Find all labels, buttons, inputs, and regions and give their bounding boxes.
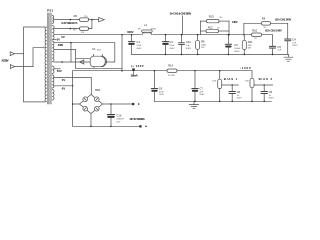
svg-text:R13: R13	[209, 15, 214, 19]
connector B+ 140V	[131, 64, 144, 77]
capacitor C7	[191, 71, 205, 102]
svg-text:R14: R14	[168, 64, 173, 68]
svg-text:PS1: PS1	[47, 9, 53, 13]
resistor R16 bias divider 2	[245, 71, 254, 102]
wire secondary stub 0V	[54, 39, 56, 41]
node dot	[145, 126, 147, 128]
svg-text:B2+ CH1 140V: B2+ CH1 140V	[275, 17, 291, 21]
svg-text:16V: 16V	[116, 121, 120, 123]
resistor R11	[242, 35, 253, 55]
svg-text:R7: R7	[73, 27, 77, 31]
resistor R6	[74, 14, 92, 21]
node dot	[131, 34, 133, 36]
svg-text:BIAS 2: BIAS 2	[259, 77, 273, 81]
AC input terminal J2	[10, 65, 33, 69]
node dot	[197, 34, 199, 36]
svg-text:DC 6V 300MA: DC 6V 300MA	[130, 117, 145, 121]
capacitor C1	[128, 35, 142, 55]
svg-text:C3: C3	[234, 43, 238, 47]
svg-text:BIAS 1: BIAS 1	[224, 77, 238, 81]
svg-text:250V: 250V	[199, 94, 205, 96]
inductor L1	[138, 23, 157, 35]
svg-text:C10: C10	[116, 113, 121, 117]
node dot	[72, 85, 74, 87]
svg-text:1uF: 1uF	[277, 50, 281, 52]
resistor R8	[196, 35, 207, 55]
svg-text:250V: 250V	[237, 97, 243, 99]
svg-text:R12: R12	[208, 25, 213, 29]
ground	[284, 54, 293, 61]
resistor R7	[73, 20, 92, 35]
node dot	[228, 54, 230, 56]
wire	[14, 53, 23, 55]
wire	[244, 23, 262, 34]
node dot	[110, 103, 112, 105]
connector arrow heater out	[92, 18, 104, 22]
svg-text:140V: 140V	[232, 20, 238, 24]
svg-text:50V: 50V	[57, 69, 62, 73]
wire B+ vertical to H3	[121, 35, 123, 71]
node dot	[231, 84, 233, 86]
node dot	[244, 54, 246, 56]
node dot	[91, 19, 93, 21]
wire bridge + output	[103, 103, 133, 105]
svg-text:R8: R8	[201, 39, 205, 43]
resistor R15 bias divider	[212, 71, 221, 102]
svg-text:C2: C2	[169, 40, 173, 44]
wire heater tap 2	[54, 28, 80, 30]
svg-text:R11: R11	[248, 40, 253, 44]
svg-text:R10: R10	[252, 29, 257, 33]
svg-text:R6: R6	[74, 14, 78, 18]
svg-text:400V: 400V	[234, 51, 240, 53]
secondary windings	[52, 16, 54, 101]
capacitor C3	[225, 35, 241, 55]
wire U1 anode feed	[70, 43, 72, 62]
node dot	[251, 101, 253, 103]
svg-text:C1: C1	[136, 40, 140, 44]
wire U1 cathode from transformer	[54, 61, 91, 63]
wire bias1 tap	[222, 84, 239, 86]
node dot	[181, 34, 183, 36]
rectifier tube U1	[90, 47, 106, 68]
bridge rectifier BR1	[80, 88, 103, 114]
terminal square +	[132, 103, 134, 105]
node dot	[263, 84, 265, 86]
primary winding	[45, 27, 47, 102]
node dot	[228, 34, 230, 36]
svg-text:C5: C5	[277, 45, 281, 49]
node dot	[197, 54, 199, 56]
svg-text:B2+ CH2 140V: B2+ CH2 140V	[265, 29, 282, 33]
capacitor C8	[229, 85, 243, 101]
wire bias2 tap	[254, 84, 273, 86]
wire minus bus	[73, 125, 140, 127]
wire 140V line (H3)	[73, 70, 252, 72]
svg-text:AC 230V: AC 230V	[1, 58, 8, 62]
wire heater tap 1	[54, 19, 80, 21]
svg-text:10K: 10K	[212, 81, 216, 83]
wire ground bus (H4)	[132, 53, 289, 55]
node dot	[231, 101, 233, 103]
node dot	[70, 28, 72, 30]
resistor R9	[262, 17, 288, 29]
node dot	[70, 42, 72, 44]
svg-text:-100V: -100V	[240, 66, 251, 70]
node dot	[194, 70, 196, 72]
wire	[182, 16, 184, 35]
node dot	[154, 70, 156, 72]
pin	[93, 54, 102, 68]
node dot	[110, 126, 112, 128]
node dot	[70, 19, 72, 21]
svg-text:BR1: BR1	[95, 88, 101, 92]
svg-text:250V: 250V	[269, 97, 275, 99]
wire	[15, 66, 33, 68]
resistor R14	[167, 64, 177, 77]
svg-text:L1: L1	[144, 23, 147, 27]
svg-text:10K: 10K	[245, 80, 249, 82]
AC input terminal J1	[10, 52, 23, 56]
wire rail B+ (H1)	[54, 34, 273, 36]
wire heater winding tap A	[54, 78, 92, 95]
wire bridge - output	[90, 114, 92, 127]
connector arrow on U1 wire	[80, 60, 84, 64]
svg-text:C8: C8	[237, 90, 241, 94]
capacitor C2	[162, 35, 175, 55]
svg-text:C11: C11	[186, 40, 191, 44]
capacitor C9	[261, 85, 275, 101]
capacitor C10	[107, 104, 125, 126]
node dot	[72, 103, 74, 105]
svg-text:100mA: 100mA	[131, 74, 138, 78]
wire primary bottom	[24, 54, 45, 102]
svg-text:3H: 3H	[138, 28, 141, 30]
wire primary left riser	[24, 27, 45, 54]
node dot	[263, 101, 265, 103]
svg-text:2200uF: 2200uF	[116, 119, 124, 121]
core	[47, 13, 49, 104]
svg-text:0V: 0V	[61, 35, 65, 39]
ground	[189, 101, 198, 108]
node dot	[219, 101, 221, 103]
node dot	[61, 61, 63, 63]
svg-text:B+ CH1 & CH2 380V: B+ CH1 & CH2 380V	[170, 12, 192, 16]
node dot	[165, 54, 167, 56]
node dot	[181, 54, 183, 56]
capacitor C5	[269, 35, 282, 55]
node dot	[90, 126, 92, 128]
wire primary mid tap	[33, 48, 45, 67]
wire bias ground bus (H5)	[155, 100, 272, 102]
svg-text:450V: 450V	[136, 48, 142, 50]
svg-text:0V: 0V	[57, 38, 61, 42]
svg-text:6V: 6V	[62, 86, 66, 90]
wire secondary stub 50V	[54, 68, 60, 70]
svg-text:250V: 250V	[292, 45, 298, 47]
svg-text:R9: R9	[262, 17, 266, 21]
node dot	[121, 34, 123, 36]
node dot	[243, 34, 245, 36]
svg-text:0V: 0V	[62, 78, 66, 82]
node dot	[228, 34, 230, 36]
wire U1 strap	[76, 67, 123, 69]
svg-text:630V: 630V	[186, 48, 192, 50]
resistor R10	[252, 29, 262, 41]
svg-text:C6: C6	[159, 87, 163, 91]
node dot	[219, 70, 221, 72]
svg-text:1K 3W: 1K 3W	[168, 75, 175, 77]
capacitor C4	[284, 23, 298, 54]
svg-text:U1: U1	[92, 47, 96, 51]
svg-text:6.3V WB417A: 6.3V WB417A	[62, 21, 78, 25]
wire rail 340V (H2)	[54, 43, 115, 62]
node dot	[138, 103, 140, 105]
svg-text:C9: C9	[269, 90, 273, 94]
wire heater winding tap B	[54, 85, 73, 87]
wire	[200, 21, 229, 35]
node dot	[121, 70, 123, 72]
svg-text:630V: 630V	[127, 30, 133, 34]
svg-text:340V: 340V	[58, 43, 64, 47]
svg-text:250V: 250V	[159, 94, 165, 96]
terminal square -	[139, 125, 141, 127]
svg-text:C7: C7	[199, 87, 203, 91]
node dot	[272, 54, 274, 56]
wire bridge left feed	[73, 71, 80, 126]
node dot	[194, 101, 196, 103]
capacitor C6	[151, 71, 165, 102]
svg-text:C4: C4	[292, 37, 296, 41]
resistor R13	[200, 15, 229, 23]
node dot	[165, 34, 167, 36]
resistor R12	[200, 25, 229, 32]
capacitor C11	[178, 35, 191, 55]
svg-text:450V: 450V	[169, 48, 175, 50]
svg-text:(+ 140V: (+ 140V	[131, 64, 144, 68]
transformer PS1	[45, 9, 54, 104]
